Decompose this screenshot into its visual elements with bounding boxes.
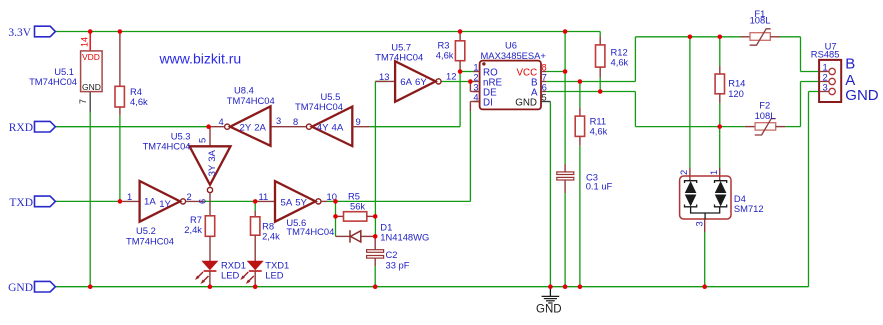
svg-text:5: 5	[542, 93, 547, 103]
wire nRE-DE tie	[470, 82, 479, 92]
resistor R11	[575, 108, 607, 146]
wire D4 pin1 drop	[719, 127, 721, 168]
fuse F2	[745, 100, 786, 135]
label U6	[481, 39, 547, 60]
svg-text:MAX3485ESA+: MAX3485ESA+	[481, 50, 547, 61]
svg-text:4,6k: 4,6k	[611, 57, 629, 68]
svg-text:GND: GND	[536, 304, 562, 316]
svg-text:6Y: 6Y	[415, 77, 427, 88]
svg-text:RS485: RS485	[811, 49, 840, 60]
junction U5.6out/DI	[333, 199, 338, 204]
junction TXD/R8	[253, 199, 258, 204]
wire RC network verticals	[335, 201, 337, 236]
wire B net	[546, 37, 819, 82]
inverter U5.7	[375, 61, 456, 102]
svg-text:VDD: VDD	[82, 52, 100, 62]
fuse F1	[741, 8, 781, 45]
wire R11 drop	[579, 82, 581, 287]
label U5.6	[286, 217, 334, 237]
svg-text:9: 9	[356, 116, 361, 127]
inverter U5.2	[120, 181, 204, 222]
svg-text:2,4k: 2,4k	[184, 224, 202, 235]
wire TXD row	[55, 200, 335, 202]
svg-text:1: 1	[127, 191, 132, 202]
svg-text:www.bizkit.ru: www.bizkit.ru	[159, 50, 242, 66]
svg-text:12: 12	[446, 71, 456, 82]
svg-text:1A: 1A	[144, 197, 156, 208]
resistor R5	[336, 191, 376, 222]
svg-text:U5.2: U5.2	[136, 225, 156, 236]
ground symbol	[536, 287, 562, 316]
svg-text:4A: 4A	[332, 123, 344, 134]
label U5.7	[375, 42, 423, 63]
svg-text:3.3V: 3.3V	[8, 27, 31, 39]
junction GND/pin5	[548, 284, 553, 289]
svg-text:TM74HC04: TM74HC04	[295, 101, 343, 112]
wire U5.5 pin9 to RO route	[370, 72, 474, 127]
junction RO/R3	[458, 69, 463, 74]
svg-text:1N4148WG: 1N4148WG	[380, 231, 429, 242]
svg-text:LED: LED	[265, 269, 283, 280]
svg-text:3Y: 3Y	[207, 164, 218, 176]
svg-text:U6: U6	[505, 39, 517, 50]
label D4	[734, 193, 764, 214]
resistor R12	[596, 37, 629, 78]
wire pin5 GND drop	[549, 102, 551, 287]
svg-text:13: 13	[379, 71, 389, 82]
svg-text:GND: GND	[8, 282, 33, 294]
junction A/R12	[598, 89, 603, 94]
wire R4 to TXD	[119, 115, 121, 201]
label U8.4	[227, 85, 275, 107]
junction 3.3V/R4	[118, 29, 123, 34]
junction B/D4pin2	[688, 35, 693, 40]
wire U8.4 out to U5.5	[271, 126, 306, 128]
svg-text:1Y: 1Y	[159, 199, 171, 210]
svg-text:TM74HC04: TM74HC04	[375, 52, 423, 63]
svg-text:DI: DI	[483, 97, 493, 108]
svg-text:3: 3	[823, 81, 828, 92]
port TXD	[9, 196, 55, 209]
svg-text:4,6k: 4,6k	[590, 126, 608, 137]
resistor R14	[715, 66, 745, 103]
label U5.5	[295, 91, 343, 112]
junction D1/C2	[373, 234, 378, 239]
svg-text:LED: LED	[221, 269, 239, 280]
power symbol U5.1 VDD/GND box	[78, 32, 102, 105]
svg-text:U8.4: U8.4	[234, 85, 254, 96]
svg-text:4,6k: 4,6k	[130, 96, 148, 107]
svg-text:120: 120	[728, 88, 744, 99]
svg-text:4: 4	[473, 92, 478, 103]
svg-text:6: 6	[197, 199, 208, 204]
svg-text:SM712: SM712	[734, 203, 764, 214]
svg-text:F2: F2	[759, 100, 770, 111]
junction GND/LED2	[253, 284, 258, 289]
label U7	[811, 41, 840, 60]
wire R8 top lead	[254, 201, 256, 211]
resistor R7	[184, 214, 214, 261]
junction GND/C3	[563, 284, 568, 289]
wire U5.1 GND drop	[89, 92, 91, 287]
svg-text:1: 1	[708, 170, 719, 175]
wire R12 drop	[599, 32, 601, 92]
label U5.2	[126, 225, 174, 247]
junction GND/R11	[578, 284, 583, 289]
svg-text:0.1 uF: 0.1 uF	[586, 181, 613, 192]
junction R5 left	[333, 214, 338, 219]
IC U6 MAX3485	[473, 61, 550, 110]
wire D4 pin3 to GND	[704, 232, 706, 287]
resistor R4	[115, 32, 148, 116]
junction R5 right	[373, 214, 378, 219]
port GND	[8, 281, 55, 294]
svg-text:108L: 108L	[755, 110, 776, 121]
port RXD	[9, 121, 56, 134]
wire D4 pin2 drop	[689, 37, 691, 168]
svg-text:TXD: TXD	[9, 197, 33, 209]
svg-text:2A: 2A	[254, 123, 266, 134]
svg-text:TM74HC04: TM74HC04	[286, 226, 334, 237]
svg-text:RXD: RXD	[9, 122, 33, 134]
svg-text:5Y: 5Y	[295, 197, 307, 208]
LED RXD1	[195, 259, 246, 286]
svg-text:56k: 56k	[350, 201, 365, 212]
label B A GND	[845, 55, 879, 104]
wire R14 drop	[719, 37, 721, 127]
junction B/R11	[578, 79, 583, 84]
svg-text:GND: GND	[845, 87, 879, 104]
inverter U5.3 (vertical)	[190, 127, 231, 216]
junction GND/U5.1	[88, 284, 93, 289]
svg-text:6: 6	[542, 82, 547, 93]
svg-text:33 pF: 33 pF	[386, 259, 410, 270]
svg-text:5A: 5A	[281, 197, 293, 208]
inverter U8.4 (output left)	[209, 106, 282, 145]
svg-text:4,6k: 4,6k	[436, 50, 454, 61]
diode D1	[336, 221, 430, 242]
junction 3.3V/VCC	[563, 29, 568, 34]
TVS diode D4 SM712	[678, 168, 731, 232]
svg-text:3: 3	[694, 221, 705, 226]
capacitor C3	[557, 164, 613, 193]
svg-text:TM74HC04: TM74HC04	[126, 236, 174, 247]
svg-text:8: 8	[293, 116, 298, 127]
svg-text:GND: GND	[82, 82, 101, 92]
wire DI route	[336, 102, 480, 202]
resistor R3	[436, 32, 465, 72]
svg-text:TM74HC04: TM74HC04	[227, 95, 275, 106]
svg-text:GND: GND	[515, 97, 537, 108]
svg-text:4: 4	[219, 116, 224, 127]
svg-text:2Y: 2Y	[240, 123, 252, 134]
capacitor C2	[367, 236, 410, 270]
svg-text:TM74HC04: TM74HC04	[143, 141, 191, 152]
junction A/R14/D4pin1	[717, 124, 722, 129]
wire 3.3V rail	[55, 31, 600, 33]
port 3.3V	[8, 26, 55, 39]
svg-text:5: 5	[197, 138, 208, 143]
svg-text:3A: 3A	[207, 149, 218, 161]
wire A net	[546, 82, 819, 127]
junction GND/D4	[702, 284, 707, 289]
junction TXD/R4	[118, 199, 123, 204]
connector U7 RS485	[819, 60, 841, 102]
wire U5.7 pin13 route down to RC	[375, 80, 387, 82]
inverter U5.6	[255, 181, 337, 222]
svg-text:2: 2	[187, 191, 192, 202]
wire C2 bottom	[374, 266, 376, 287]
inverter U5.5 (output left)	[293, 107, 370, 147]
junction nRE/DE	[468, 79, 473, 84]
junction GND/C2	[373, 284, 378, 289]
svg-text:14: 14	[80, 37, 90, 47]
junction VCC/C3	[563, 69, 568, 74]
svg-text:6A: 6A	[400, 77, 412, 88]
wire U5.7 out to nRE	[441, 81, 475, 83]
label U5.1	[29, 66, 77, 87]
svg-text:B: B	[845, 55, 855, 72]
wire U7 pin3 GND route	[809, 92, 820, 287]
wire RXD row	[55, 126, 208, 128]
wire GND rail	[55, 286, 808, 288]
junction GND/LED1	[208, 284, 213, 289]
svg-text:7: 7	[78, 99, 88, 104]
junction B/R14	[718, 35, 723, 40]
svg-text:3: 3	[276, 115, 281, 126]
svg-text:11: 11	[259, 191, 269, 202]
svg-text:TM74HC04: TM74HC04	[29, 76, 77, 87]
junction 3.3V/U5.1	[88, 29, 93, 34]
svg-text:2,4k: 2,4k	[262, 231, 280, 242]
junction 3.3V/R3	[458, 29, 463, 34]
LED TXD1	[240, 259, 289, 286]
junction RXD/U5.3	[206, 124, 211, 129]
svg-text:4Y: 4Y	[317, 123, 329, 134]
label U5.3	[143, 131, 191, 152]
svg-text:2: 2	[678, 170, 689, 175]
svg-text:108L: 108L	[750, 15, 771, 26]
wire VCC net	[546, 32, 565, 287]
resistor R8	[251, 211, 281, 261]
